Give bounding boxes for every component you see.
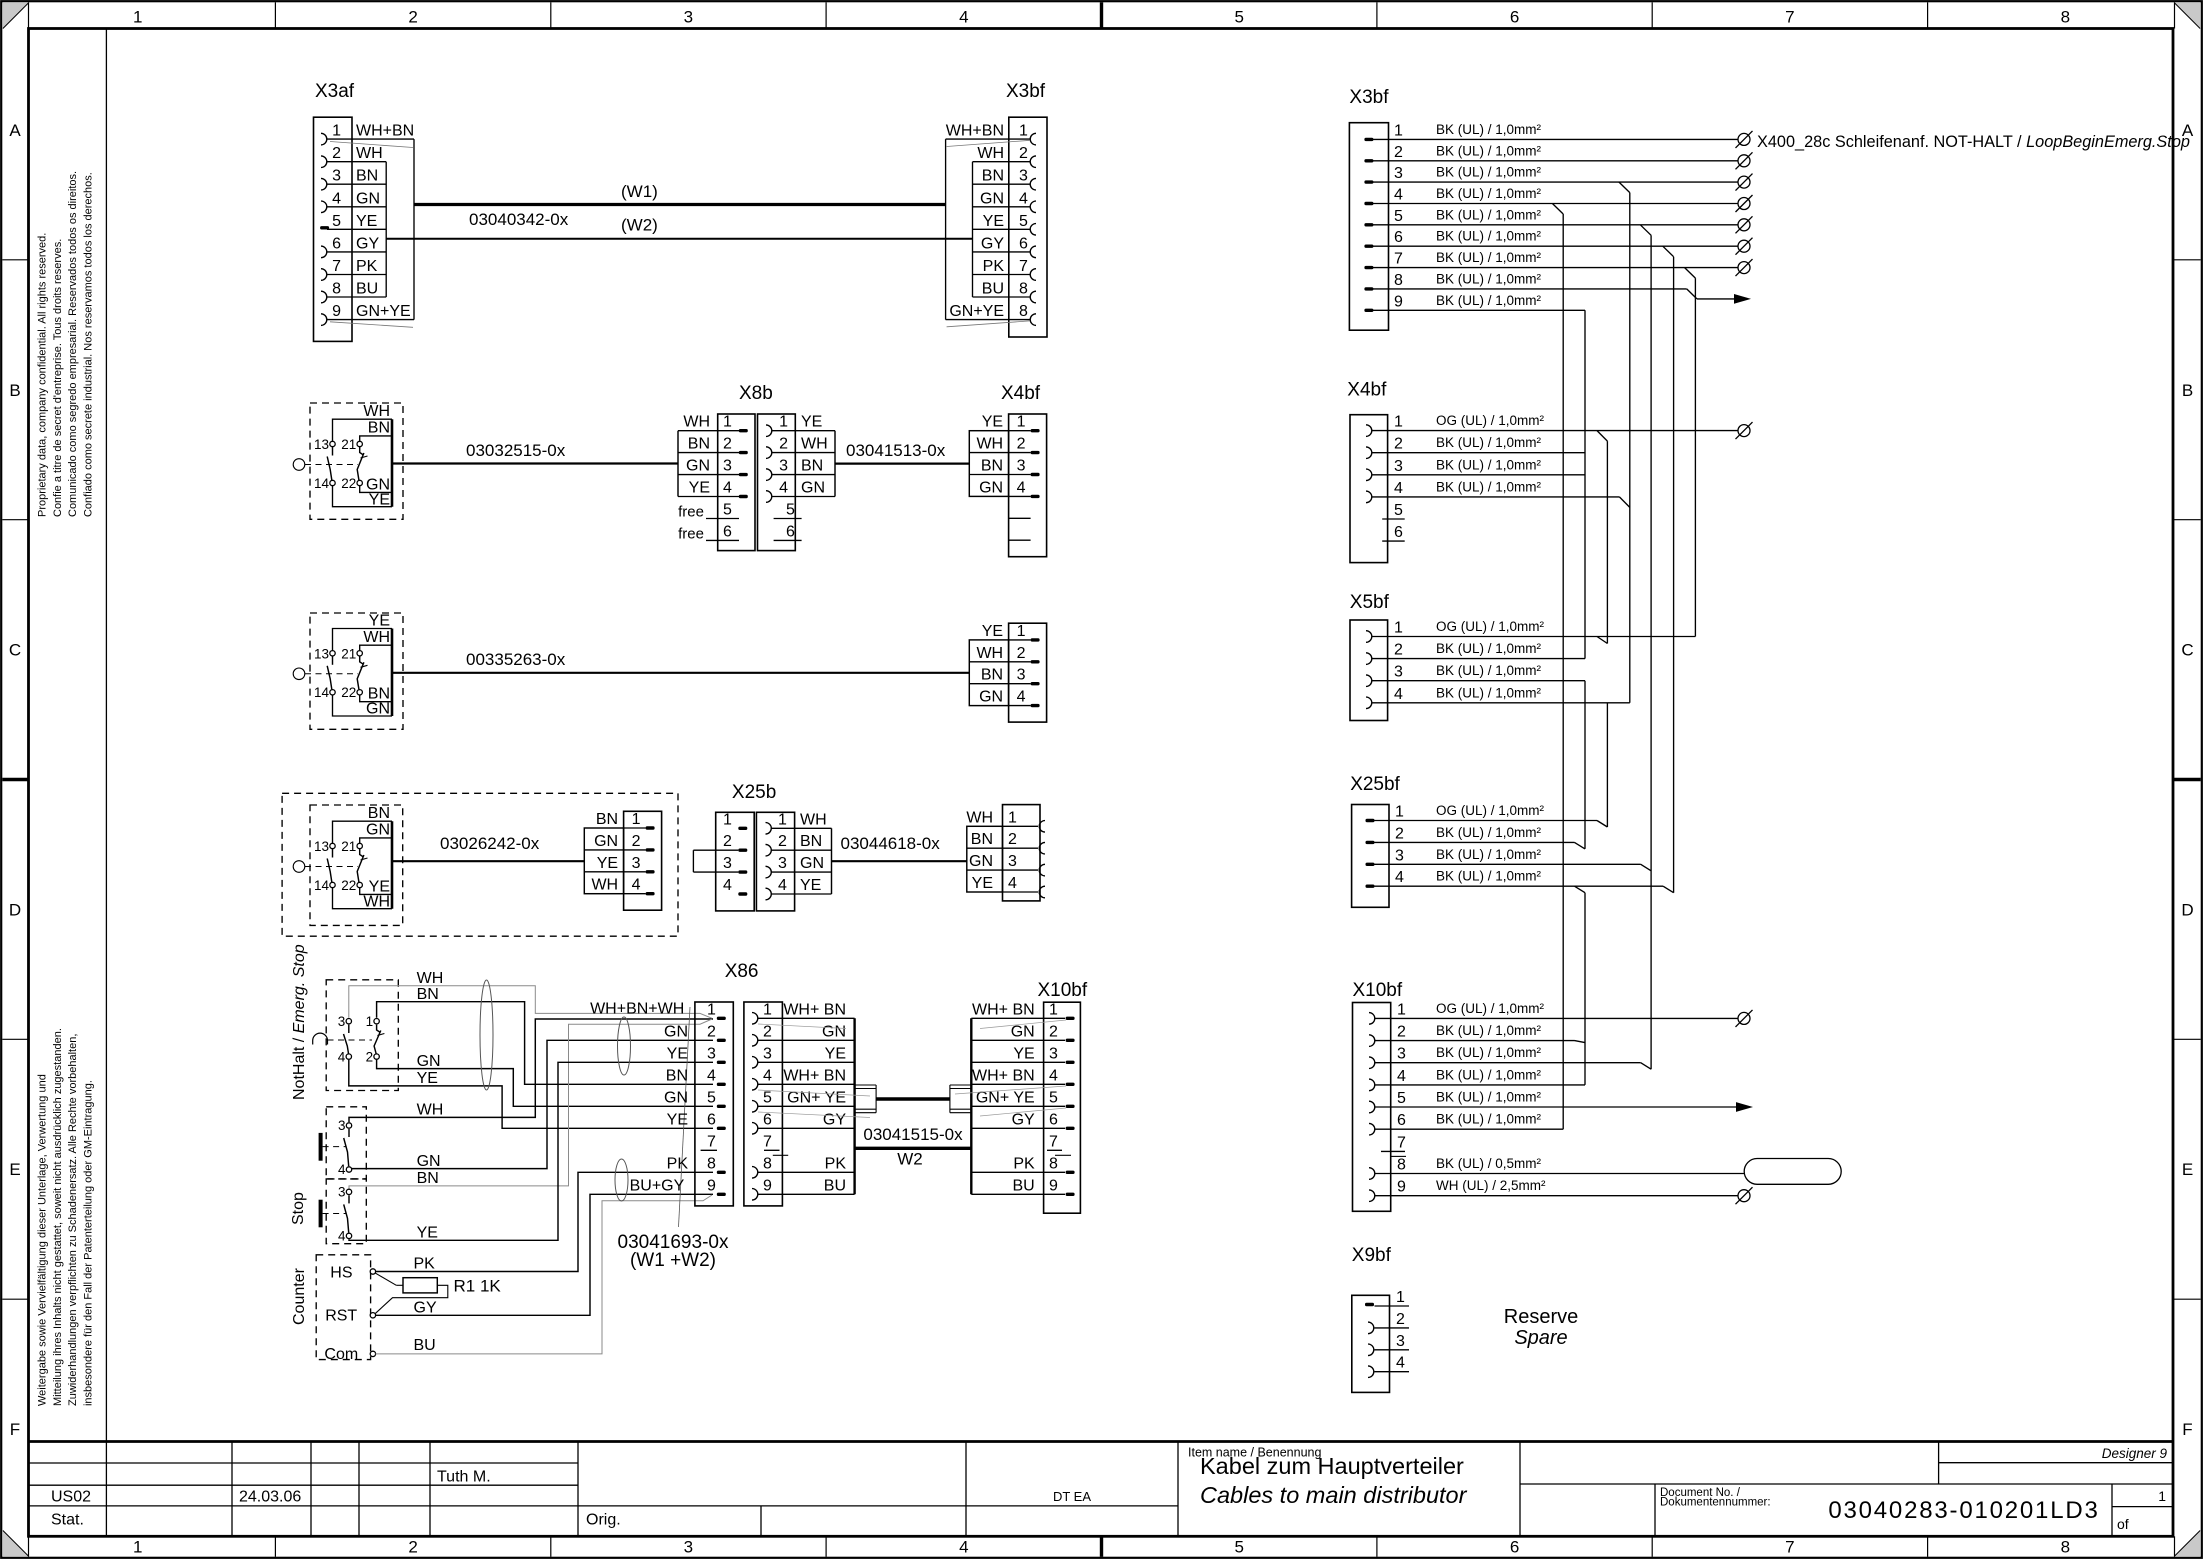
svg-text:BK (UL) / 1,0mm²: BK (UL) / 1,0mm² <box>1436 435 1542 450</box>
svg-text:3: 3 <box>1394 165 1403 182</box>
svg-text:00335263-0x: 00335263-0x <box>466 650 566 669</box>
svg-text:BK (UL) / 1,0mm²: BK (UL) / 1,0mm² <box>1436 122 1542 137</box>
terminator X400_28c <box>1736 131 1753 148</box>
svg-text:X4bf: X4bf <box>1347 380 1387 401</box>
svg-text:X25b: X25b <box>732 782 776 803</box>
svg-text:BK (UL) / 1,0mm²: BK (UL) / 1,0mm² <box>1436 1090 1542 1105</box>
proprietary data confidentiality notice (rotated) <box>37 171 95 517</box>
svg-text:2: 2 <box>1396 1311 1405 1328</box>
wire X3bf pin8 BK to arrow <box>1373 288 1687 290</box>
svg-text:X5bf: X5bf <box>1350 592 1390 613</box>
svg-text:WH: WH <box>591 877 618 894</box>
svg-text:4: 4 <box>1017 479 1026 496</box>
svg-text:8: 8 <box>1049 1155 1058 1172</box>
net X3bf.3 to X4bf.4/X5bf.4 vertical rail <box>1629 193 1631 703</box>
svg-text:X4bf: X4bf <box>1001 383 1041 404</box>
svg-text:Proprietary data, company con: Proprietary data, company confidential. … <box>37 233 49 517</box>
svg-text:3: 3 <box>1019 168 1028 185</box>
cable 03041513-0x <box>835 463 969 465</box>
svg-text:BN: BN <box>981 667 1003 684</box>
svg-text:9: 9 <box>763 1177 772 1194</box>
svg-text:BN: BN <box>368 420 390 437</box>
svg-text:1: 1 <box>1397 1001 1406 1018</box>
connector X25bf <box>1352 804 1404 908</box>
connector X25b left half <box>693 811 754 911</box>
svg-text:WH: WH <box>800 811 827 828</box>
cable leader line 03041693-0x <box>679 1007 691 1227</box>
wire X10bf pin8 BK to cap <box>1375 1173 1745 1175</box>
connector X8b left half <box>678 414 755 551</box>
svg-text:OG (UL) / 1,0mm²: OG (UL) / 1,0mm² <box>1436 413 1545 428</box>
svg-text:WH: WH <box>966 809 993 826</box>
svg-text:X9bf: X9bf <box>1352 1245 1392 1266</box>
svg-text:GN: GN <box>979 479 1003 496</box>
svg-text:Kabel zum Hauptverteiler: Kabel zum Hauptverteiler <box>1200 1453 1464 1479</box>
svg-text:WH: WH <box>801 436 828 453</box>
svg-text:BN: BN <box>801 458 823 475</box>
wire X25bf pin3 BK <box>1375 863 1641 865</box>
wire GN from Stop upper contact 4 <box>352 1040 713 1168</box>
svg-text:BU: BU <box>356 281 378 298</box>
connector X8b right half <box>758 414 836 551</box>
reproduction prohibition notice German (rotated) <box>37 1028 95 1406</box>
svg-text:4: 4 <box>1017 689 1026 706</box>
right label strip with row letters <box>2173 121 2201 1439</box>
svg-text:GN: GN <box>969 853 993 870</box>
svg-text:21: 21 <box>341 646 356 661</box>
svg-text:5: 5 <box>1019 213 1028 230</box>
wire X3bf pin7 BK with branch <box>1373 267 1738 269</box>
svg-text:Spare: Spare <box>1514 1327 1567 1349</box>
svg-text:(W2): (W2) <box>621 216 658 235</box>
svg-text:Dokumentennummer:: Dokumentennummer: <box>1660 1497 1771 1509</box>
svg-text:Counter: Counter <box>291 1267 308 1325</box>
svg-text:4: 4 <box>1019 190 1028 207</box>
svg-text:BN: BN <box>596 811 618 828</box>
svg-text:6: 6 <box>1049 1111 1058 1128</box>
svg-text:4: 4 <box>959 8 968 27</box>
svg-text:14: 14 <box>314 878 330 893</box>
svg-text:GN: GN <box>366 822 390 839</box>
svg-text:BK (UL) / 1,0mm²: BK (UL) / 1,0mm² <box>1436 1112 1542 1127</box>
svg-text:5: 5 <box>1397 1090 1406 1107</box>
connector X3bf (distributor side) <box>1349 122 1403 330</box>
svg-text:1: 1 <box>1394 414 1403 431</box>
svg-text:GN: GN <box>664 1023 688 1040</box>
svg-text:3: 3 <box>778 855 787 872</box>
wire X5bf pin2 BK <box>1372 658 1586 660</box>
svg-text:X86: X86 <box>725 961 759 982</box>
svg-text:C: C <box>9 641 21 660</box>
connector X4bf (row B) <box>969 383 1046 557</box>
svg-text:BK (UL) / 1,0mm²: BK (UL) / 1,0mm² <box>1436 685 1542 700</box>
svg-text:13: 13 <box>314 839 329 854</box>
svg-text:3: 3 <box>763 1045 772 1062</box>
wire X10bf pin5 BK to arrow <box>1375 1106 1737 1108</box>
svg-text:BK (UL) / 1,0mm²: BK (UL) / 1,0mm² <box>1436 663 1542 678</box>
emergency stop switch NotHalt / Emerg. Stop <box>291 944 398 1100</box>
svg-text:3: 3 <box>707 1045 716 1062</box>
svg-text:BK (UL) / 1,0mm²: BK (UL) / 1,0mm² <box>1436 186 1542 201</box>
terminator at X3bf pin3 <box>1736 174 1753 191</box>
svg-text:3: 3 <box>723 458 732 475</box>
svg-text:5: 5 <box>786 502 795 519</box>
sheet number field <box>2117 1488 2166 1532</box>
connector X3bf <box>946 117 1047 337</box>
svg-text:B: B <box>2182 381 2193 400</box>
svg-text:of: of <box>2117 1516 2129 1532</box>
svg-text:BN: BN <box>666 1067 688 1084</box>
svg-text:13: 13 <box>314 646 329 661</box>
svg-text:3: 3 <box>1394 664 1403 681</box>
svg-text:YE: YE <box>417 1070 438 1087</box>
svg-text:2: 2 <box>632 833 641 850</box>
svg-text:1: 1 <box>723 811 732 828</box>
svg-text:2: 2 <box>1395 825 1404 842</box>
svg-text:PK: PK <box>667 1155 689 1172</box>
wire X3bf pin9 BK <box>1373 309 1585 311</box>
svg-text:1: 1 <box>723 414 732 431</box>
cable 03044618-0x <box>832 860 967 862</box>
svg-text:WH+BN+WH: WH+BN+WH <box>590 1000 684 1017</box>
svg-text:GN: GN <box>801 480 825 497</box>
svg-text:BK (UL) / 1,0mm²: BK (UL) / 1,0mm² <box>1436 869 1542 884</box>
svg-text:6: 6 <box>707 1111 716 1128</box>
wire X10bf pin6 BK <box>1375 1128 1564 1130</box>
svg-text:Stat.: Stat. <box>51 1512 84 1529</box>
svg-text:24.03.06: 24.03.06 <box>239 1489 301 1506</box>
svg-text:WH: WH <box>417 970 444 987</box>
svg-text:GY: GY <box>823 1111 846 1128</box>
svg-text:WH: WH <box>683 414 710 431</box>
svg-text:WH: WH <box>363 629 390 646</box>
svg-text:YE: YE <box>982 623 1003 640</box>
svg-text:6: 6 <box>786 523 795 540</box>
svg-text:5: 5 <box>763 1089 772 1106</box>
wire X3bf pin3 BK with branch <box>1373 181 1738 183</box>
svg-text:YE: YE <box>825 1045 846 1062</box>
svg-text:7: 7 <box>1785 1538 1794 1557</box>
wire X3bf pin1 BK to loop begin <box>1373 138 1738 140</box>
svg-text:YE: YE <box>972 875 993 892</box>
wire X5bf pin3 BK <box>1372 680 1586 682</box>
svg-text:BN: BN <box>971 831 993 848</box>
svg-text:BU: BU <box>1012 1177 1034 1194</box>
svg-text:PK: PK <box>825 1155 847 1172</box>
svg-text:3: 3 <box>1396 1333 1405 1350</box>
terminator at X3bf pin7 <box>1736 259 1753 276</box>
svg-text:6: 6 <box>1019 235 1028 252</box>
svg-text:3: 3 <box>338 1118 346 1133</box>
svg-text:BN: BN <box>356 168 378 185</box>
svg-text:WH: WH <box>363 893 390 910</box>
net X25bf.4 to X10bf.2/4 vertical rail <box>1584 893 1586 1085</box>
svg-text:4: 4 <box>338 1050 346 1065</box>
svg-text:14: 14 <box>314 685 330 700</box>
svg-text:GY: GY <box>356 235 379 252</box>
svg-text:22: 22 <box>341 476 356 491</box>
svg-text:2: 2 <box>778 833 787 850</box>
svg-text:2: 2 <box>1394 436 1403 453</box>
svg-text:BN: BN <box>417 986 439 1003</box>
svg-text:2: 2 <box>332 145 341 162</box>
svg-text:8: 8 <box>763 1155 772 1172</box>
wire YE from Stop lower contact 4 <box>349 1062 713 1240</box>
svg-text:7: 7 <box>1019 258 1028 275</box>
svg-text:X3bf: X3bf <box>1349 87 1389 108</box>
terminator at X10bf pin1 <box>1736 1010 1753 1027</box>
svg-text:X400_28c Schleifenanf. NOT-HAL: X400_28c Schleifenanf. NOT-HALT / LoopBe… <box>1757 133 2190 151</box>
svg-text:GN: GN <box>664 1089 688 1106</box>
svg-text:03040283-010201LD3: 03040283-010201LD3 <box>1828 1497 2099 1524</box>
confidentiality column divider <box>105 29 107 1442</box>
wire WH from Stop upper contact 3 <box>349 1019 713 1122</box>
terminator at X10bf pin9 <box>1736 1187 1753 1204</box>
svg-text:2: 2 <box>408 1538 417 1557</box>
cable 00335263-0x <box>392 672 969 674</box>
svg-text:1: 1 <box>366 1014 374 1029</box>
cable 03041515-0x wire W1 with pair brackets <box>855 1085 972 1113</box>
connector X5bf <box>1350 620 1403 721</box>
net X5bf.3 to X25bf.2 vertical rail <box>1584 681 1586 849</box>
svg-text:C: C <box>2181 641 2193 660</box>
svg-text:9: 9 <box>1394 293 1403 310</box>
wire X10bf pin1 OG <box>1375 1017 1739 1019</box>
svg-text:Cables to main distributor: Cables to main distributor <box>1200 1482 1468 1508</box>
svg-text:4: 4 <box>1008 875 1017 892</box>
svg-text:03032515-0x: 03032515-0x <box>466 441 566 460</box>
svg-text:B: B <box>9 381 20 400</box>
svg-text:8: 8 <box>707 1155 716 1172</box>
svg-text:1: 1 <box>332 123 341 140</box>
wire X10bf pin3 BK <box>1375 1062 1641 1064</box>
svg-text:F: F <box>10 1420 20 1439</box>
svg-text:Confiado como secrete industri: Confiado como secrete industrial. Nos re… <box>82 172 94 517</box>
terminator at X3bf pin2 <box>1736 152 1753 169</box>
svg-text:13: 13 <box>314 437 329 452</box>
svg-text:F: F <box>2182 1420 2192 1439</box>
terminator at X3bf pin4 <box>1736 195 1753 212</box>
wire GN from NotHalt contact 2 <box>377 1060 713 1106</box>
svg-text:BK (UL) / 1,0mm²: BK (UL) / 1,0mm² <box>1436 229 1542 244</box>
svg-text:4: 4 <box>632 877 641 894</box>
cable bundle ellipse at X86 pins 8-9 <box>615 1159 628 1201</box>
svg-text:3: 3 <box>1008 853 1017 870</box>
svg-text:3: 3 <box>338 1014 346 1029</box>
svg-text:Weitergabe sowie Vervielfält: Weitergabe sowie Vervielfältigung dieser… <box>37 1074 49 1406</box>
svg-text:Comunicado como segredo empres: Comunicado como segredo empresarial. Res… <box>67 171 79 517</box>
svg-text:4: 4 <box>1396 1355 1405 1372</box>
svg-text:OG (UL) / 1,0mm²: OG (UL) / 1,0mm² <box>1436 1001 1545 1016</box>
svg-text:7: 7 <box>1394 251 1403 268</box>
svg-text:X3bf: X3bf <box>1006 81 1046 102</box>
svg-text:YE: YE <box>369 613 390 630</box>
svg-text:2: 2 <box>1049 1023 1058 1040</box>
svg-text:YE: YE <box>801 414 822 431</box>
svg-text:X10bf: X10bf <box>1038 980 1088 1001</box>
svg-text:2: 2 <box>1008 831 1017 848</box>
connector X86 left half <box>590 1000 733 1206</box>
svg-text:4: 4 <box>1397 1068 1406 1085</box>
svg-text:3: 3 <box>1049 1045 1058 1062</box>
stop switch Stop (upper) contacts 3-4 <box>319 1107 367 1179</box>
svg-text:5: 5 <box>332 213 341 230</box>
svg-text:03041513-0x: 03041513-0x <box>846 441 946 460</box>
terminator at X3bf pin5 <box>1736 216 1753 233</box>
svg-text:YE: YE <box>800 877 821 894</box>
svg-text:NotHalt / Emerg. Stop: NotHalt / Emerg. Stop <box>291 944 308 1100</box>
left label strip with row letters <box>2 121 28 1439</box>
wire X10bf pin2 BK <box>1375 1040 1575 1042</box>
svg-text:WH+ BN: WH+ BN <box>783 1001 846 1018</box>
svg-text:BK (UL) / 1,0mm²: BK (UL) / 1,0mm² <box>1436 641 1542 656</box>
wire X25bf pin1 OG <box>1375 820 1598 822</box>
document number field <box>1660 1487 2100 1524</box>
svg-text:E: E <box>2182 1160 2193 1179</box>
svg-text:3: 3 <box>338 1184 346 1199</box>
svg-text:GY: GY <box>1012 1111 1035 1128</box>
wire X10bf pin9 WH <box>1375 1195 1739 1197</box>
svg-text:WH+ BN: WH+ BN <box>972 1067 1035 1084</box>
connector X10bf (distributor side) <box>1353 1001 1407 1211</box>
net X3bf.6 to X25bf.4 vertical rail <box>1673 257 1675 893</box>
svg-text:GN: GN <box>979 689 1003 706</box>
svg-text:BN: BN <box>417 1170 439 1187</box>
svg-text:PK: PK <box>1013 1155 1035 1172</box>
svg-text:03044618-0x: 03044618-0x <box>841 834 941 853</box>
svg-text:BU+GY: BU+GY <box>630 1177 685 1194</box>
svg-text:YE: YE <box>417 1225 438 1242</box>
svg-text:2: 2 <box>723 833 732 850</box>
svg-text:1: 1 <box>632 811 641 828</box>
svg-text:4: 4 <box>959 1538 968 1557</box>
svg-text:YE: YE <box>597 855 618 872</box>
svg-text:X8b: X8b <box>739 383 773 404</box>
svg-text:14: 14 <box>314 476 330 491</box>
svg-text:BN: BN <box>688 436 710 453</box>
svg-text:BK (UL) / 1,0mm²: BK (UL) / 1,0mm² <box>1436 143 1542 158</box>
svg-text:5: 5 <box>1394 502 1403 519</box>
svg-text:4: 4 <box>332 190 341 207</box>
svg-text:WH: WH <box>356 145 383 162</box>
svg-text:WH+BN: WH+BN <box>946 123 1004 140</box>
svg-text:7: 7 <box>707 1133 716 1150</box>
svg-text:2: 2 <box>1394 144 1403 161</box>
svg-text:5: 5 <box>1049 1089 1058 1106</box>
svg-text:2: 2 <box>408 8 417 27</box>
wire WH from NotHalt contact 3 <box>349 986 712 1019</box>
svg-text:6: 6 <box>723 523 732 540</box>
svg-text:03041515-0x: 03041515-0x <box>863 1125 963 1144</box>
svg-text:21: 21 <box>341 839 356 854</box>
svg-text:5: 5 <box>1234 1538 1243 1557</box>
svg-text:BN: BN <box>800 833 822 850</box>
svg-text:3: 3 <box>684 8 693 27</box>
svg-text:GN: GN <box>980 190 1004 207</box>
wire X4bf pin2 BK <box>1372 452 1586 454</box>
svg-text:3: 3 <box>779 458 788 475</box>
svg-text:WH+BN: WH+BN <box>356 123 414 140</box>
connector X3af <box>314 117 415 341</box>
cable 03040342-0x wire W2 <box>386 238 972 240</box>
svg-text:2: 2 <box>366 1050 374 1065</box>
svg-text:5: 5 <box>707 1089 716 1106</box>
svg-text:BK (UL) / 1,0mm²: BK (UL) / 1,0mm² <box>1436 250 1542 265</box>
svg-text:WH: WH <box>976 645 1003 662</box>
connector pigtail 4-pin right (row D) <box>966 805 1045 901</box>
svg-text:03040342-0x: 03040342-0x <box>469 210 569 229</box>
svg-text:6: 6 <box>763 1111 772 1128</box>
svg-text:Stop: Stop <box>290 1192 307 1225</box>
net X5bf.4 to X25bf.1 vertical rail <box>1606 703 1608 827</box>
svg-text:1: 1 <box>1049 1001 1058 1018</box>
connector X86 right half <box>744 1001 870 1206</box>
svg-text:4: 4 <box>338 1228 346 1243</box>
svg-text:4: 4 <box>1394 187 1403 204</box>
svg-text:GY: GY <box>414 1299 437 1316</box>
connector pigtail 4-pin (row D) <box>584 811 661 910</box>
svg-text:E: E <box>9 1160 20 1179</box>
svg-text:BK (UL) / 1,0mm²: BK (UL) / 1,0mm² <box>1436 479 1542 494</box>
svg-text:BN: BN <box>981 458 1003 475</box>
wire X4bf pin4 BK <box>1372 496 1620 498</box>
svg-text:BK (UL) / 1,0mm²: BK (UL) / 1,0mm² <box>1436 1045 1542 1060</box>
svg-text:4: 4 <box>1049 1067 1058 1084</box>
svg-text:GN: GN <box>822 1023 846 1040</box>
svg-text:8: 8 <box>1019 281 1028 298</box>
wire X25bf pin2 BK <box>1375 841 1575 843</box>
svg-text:1: 1 <box>2158 1488 2166 1504</box>
svg-text:6: 6 <box>1510 8 1519 27</box>
svg-text:X25bf: X25bf <box>1350 774 1400 795</box>
svg-text:7: 7 <box>1049 1133 1058 1150</box>
svg-text:WH: WH <box>363 403 390 420</box>
svg-text:WH+ BN: WH+ BN <box>783 1067 846 1084</box>
svg-text:4: 4 <box>338 1162 346 1177</box>
svg-text:OG (UL) / 1,0mm²: OG (UL) / 1,0mm² <box>1436 803 1545 818</box>
svg-text:7: 7 <box>1397 1134 1406 1151</box>
svg-text:7: 7 <box>1785 8 1794 27</box>
svg-text:WH+ BN: WH+ BN <box>972 1001 1035 1018</box>
svg-text:WH (UL) / 2,5mm²: WH (UL) / 2,5mm² <box>1436 1178 1546 1193</box>
svg-text:GN: GN <box>594 833 618 850</box>
wire BN from NotHalt contact 1 <box>377 1002 713 1085</box>
svg-text:2: 2 <box>723 436 732 453</box>
svg-text:X3af: X3af <box>315 81 355 102</box>
svg-text:BU: BU <box>824 1177 846 1194</box>
svg-text:8: 8 <box>332 281 341 298</box>
connector X25b right half <box>756 811 831 911</box>
svg-text:9: 9 <box>707 1177 716 1194</box>
svg-text:YE: YE <box>369 491 390 508</box>
svg-text:W2: W2 <box>897 1150 923 1169</box>
wire X25bf pin4 BK <box>1375 885 1664 887</box>
svg-text:1: 1 <box>1017 623 1026 640</box>
svg-text:22: 22 <box>341 685 356 700</box>
wire X10bf pin4 BK <box>1375 1084 1586 1086</box>
svg-text:3: 3 <box>1017 667 1026 684</box>
counter box Counter <box>291 1255 376 1363</box>
cable 03040342-0x wire W1 <box>414 203 946 206</box>
arrow terminator at X3bf pin8 <box>1734 294 1751 304</box>
svg-text:1: 1 <box>1396 1289 1405 1306</box>
svg-text:Mitteilung ihres Inhalts nicht: Mitteilung ihres Inhalts nicht gestattet… <box>52 1028 64 1406</box>
svg-text:GN: GN <box>366 701 390 718</box>
svg-text:GN: GN <box>686 458 710 475</box>
svg-text:2: 2 <box>1397 1024 1406 1041</box>
svg-text:YE: YE <box>667 1111 688 1128</box>
svg-text:6: 6 <box>1397 1112 1406 1129</box>
